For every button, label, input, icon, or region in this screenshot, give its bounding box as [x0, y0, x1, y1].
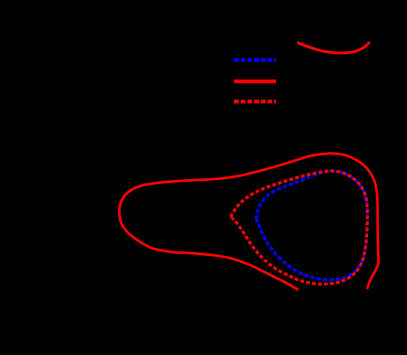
legend: blue dashed line [234, 58, 276, 62]
main red solid trajectory [119, 153, 378, 289]
legend: red dashed line [234, 100, 276, 104]
legend: red solid line [234, 80, 276, 84]
blue dashed limit cycle [256, 171, 367, 280]
smile curve top right (red solid) [298, 43, 369, 53]
red dashed limit cycle [231, 171, 368, 284]
